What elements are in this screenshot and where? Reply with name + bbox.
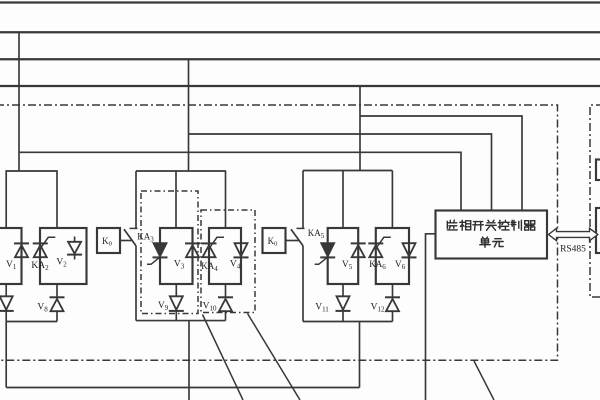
thyristor V3 pair xyxy=(185,243,200,257)
diode V9 xyxy=(169,284,184,321)
controller label line 2 xyxy=(480,237,503,247)
module box V5 xyxy=(328,228,359,284)
wire: group B output xyxy=(188,321,190,400)
wire: drop to V3 xyxy=(175,171,177,228)
wire: sense line phase C xyxy=(360,116,522,211)
bottom bus xyxy=(6,387,359,389)
wire: sense line phase A xyxy=(19,152,461,210)
thyristor V5 xyxy=(315,243,336,264)
bus line 1 xyxy=(0,1,600,3)
controller label line 1 xyxy=(447,220,534,230)
bus line 4 xyxy=(0,85,600,87)
diode V7 xyxy=(0,284,14,322)
module box V6 xyxy=(376,228,409,284)
thyristor V5 pair xyxy=(351,243,366,257)
wire: group B header xyxy=(136,170,226,172)
controller dash-dot boundary (cropped) xyxy=(590,105,600,297)
RS485 double arrow xyxy=(549,228,598,240)
thyristor KA6 branch xyxy=(368,237,391,257)
cropped box B1 xyxy=(596,160,600,181)
wire: phase B feed xyxy=(188,59,190,171)
leader line 3 xyxy=(474,361,494,400)
wire: drop to V6 xyxy=(391,171,393,229)
diode V12 xyxy=(385,284,400,322)
leader line 2 xyxy=(248,314,301,400)
dash-dot box around V4 xyxy=(201,210,255,313)
bus line 2 xyxy=(0,31,600,33)
dash-dot box around V3 xyxy=(141,191,198,314)
contact KA5 xyxy=(286,171,305,322)
cropped box B2 xyxy=(596,208,600,253)
contact KA3 xyxy=(120,171,138,321)
controller wire down xyxy=(426,234,436,400)
module box V2 xyxy=(40,228,87,284)
diode V8 xyxy=(50,284,65,322)
wire: drop to V5 xyxy=(342,171,344,229)
wire: drop to V4 xyxy=(225,171,227,228)
thyristor V4 xyxy=(234,243,249,257)
wire: group C header xyxy=(303,170,392,172)
thyristor KA4 branch xyxy=(202,237,225,257)
module box V1 xyxy=(0,228,22,284)
svg-text:RS485: RS485 xyxy=(560,245,586,255)
module box V4 xyxy=(209,228,241,284)
bus line 3 xyxy=(0,58,600,60)
wire: group C bottom xyxy=(303,321,393,323)
thyristor V3 xyxy=(147,243,168,264)
thyristor V6 xyxy=(402,243,417,257)
wire: group A bottom xyxy=(6,321,57,323)
diode V11 xyxy=(336,284,351,322)
controller unit box xyxy=(436,211,548,259)
thyristor KA2 branch xyxy=(33,237,56,257)
wire: phase A feed xyxy=(18,32,20,171)
wire: group A output xyxy=(5,322,7,388)
diode V10 xyxy=(218,284,233,321)
relay coil K relay (phase B) xyxy=(97,228,120,253)
leader line 1 xyxy=(203,315,244,400)
wire: sense line phase B xyxy=(189,134,492,211)
wire: group B bottom xyxy=(136,320,226,322)
thyristor V1 pair xyxy=(14,243,29,257)
wire: group A header xyxy=(6,171,57,228)
wire: phase C feed xyxy=(359,86,361,171)
relay coil K relay (phase C) xyxy=(263,228,286,253)
thyristor V2 xyxy=(67,237,82,260)
wire: group C output xyxy=(359,322,361,388)
module box V3 xyxy=(160,228,193,284)
switch-module dash-dot boundary xyxy=(0,105,558,360)
